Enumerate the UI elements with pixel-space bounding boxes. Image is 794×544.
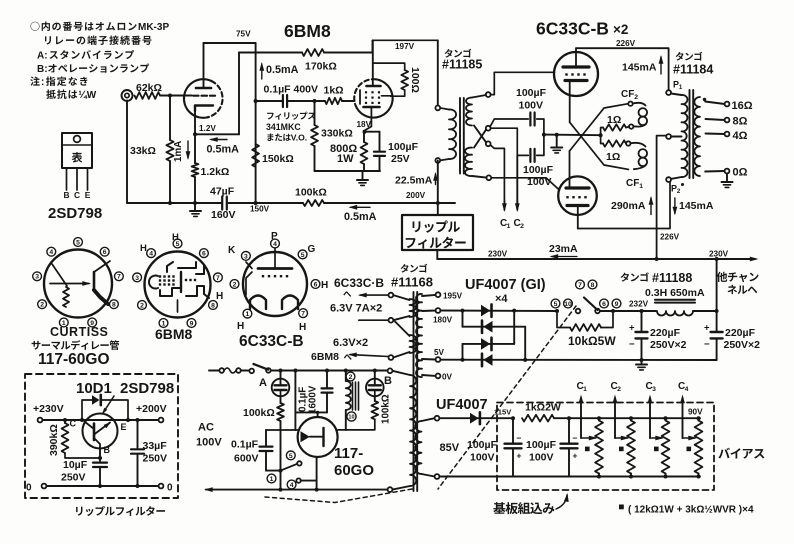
wire cathode-feedback [195,133,239,135]
resistor 100ohm screen [373,63,405,70]
svg-text:4Ω: 4Ω [733,130,748,142]
S2 pin 2 [138,301,147,310]
S1 pin 9 [88,318,97,327]
node cap1 [640,309,644,313]
tube V4 6C33C lower [558,176,597,215]
bridge left vert 1-2 [462,311,464,327]
tube V3 6C33C upper [554,52,598,96]
wire rail into ripple box [437,203,439,215]
V2 plate lead [372,40,374,86]
bias fixed dot 1 [585,447,590,452]
relay core [352,382,354,410]
arrow board [556,495,567,509]
bias wiper 4 [683,437,696,439]
package legs [66,168,68,190]
bridge right vert 2-4 [524,327,526,360]
svg-text:×4: ×4 [495,293,508,305]
wire lamp A chain down [280,421,282,471]
svg-text:6.3V×2: 6.3V×2 [333,337,368,349]
diode D4 [481,354,484,366]
bias wiper 3 [650,437,662,439]
V4 grid dots [566,196,568,198]
svg-text:22.5mA: 22.5mA [395,175,433,187]
wire cathode res top [194,134,196,163]
svg-text:K: K [228,245,236,256]
tap 16ohm [705,102,724,105]
svg-text:1Ω: 1Ω [606,151,620,163]
wire cap right [287,100,325,102]
AC bottom wire [206,489,388,491]
socket S3 6C33C-B [243,252,307,316]
svg-text:6: 6 [314,281,318,288]
svg-text:CF: CF [626,178,639,189]
1ohm bracket [601,128,603,144]
svg-text:0.3H 650mA: 0.3H 650mA [645,287,705,299]
svg-text:E: E [85,190,91,200]
svg-text:150V: 150V [250,205,270,214]
S1 pin 8 [110,300,119,309]
svg-text:0: 0 [26,483,32,494]
svg-text:6BM8: 6BM8 [311,351,339,363]
capacitor 10uF base [99,449,101,462]
wire 33k-rail [169,161,171,203]
svg-text:250V×2: 250V×2 [650,339,687,351]
svg-text:5: 5 [301,252,305,259]
svg-text:+: + [573,451,578,461]
switch SW1 [249,369,254,374]
node relay contact common [279,469,283,473]
capacitor 33uF out [136,418,140,422]
svg-text:9: 9 [615,301,619,308]
bias wiper 2 [615,437,628,439]
svg-text:B: B [64,190,70,200]
wire T1 primary bottom to rail [437,160,439,203]
other channel feed [716,259,718,331]
svg-text:180V: 180V [433,316,453,325]
base node [98,456,102,460]
svg-text:250V×2: 250V×2 [724,339,761,351]
label board assembly [493,502,505,514]
svg-text:0Ω: 0Ω [733,167,748,179]
node B+ rail [655,257,659,261]
svg-text:0.5mA: 0.5mA [266,64,299,76]
svg-text:60GO: 60GO [334,462,374,479]
bias fixed dot 3 [654,447,659,452]
svg-text:4: 4 [685,386,689,393]
svg-text:5: 5 [554,301,558,308]
svg-text:−: − [517,433,522,443]
svg-text:5V: 5V [434,348,445,357]
svg-text:A:: A: [37,51,48,62]
tap 195V [422,295,436,296]
bias bottom rail [439,476,700,478]
wire V4 to P2 [578,182,670,229]
heater wire 2 [359,319,389,321]
V3 grid dots [565,73,567,75]
svg-text:100V: 100V [196,437,222,449]
svg-text:3: 3 [35,274,39,281]
svg-text:330kΩ: 330kΩ [321,128,353,140]
relay pin numbers [576,280,585,289]
svg-text:B: B [104,445,111,455]
svg-text:1W: 1W [337,153,354,165]
V4 diagonal to CF2 [570,104,629,151]
svg-text:#11185: #11185 [442,58,482,72]
choke CF1 [626,141,630,145]
T1 sec terminal 2 [486,126,491,131]
cathode ground bus [315,170,381,172]
V1 grid dashes [194,95,199,97]
S1 pin 5 [74,238,83,247]
svg-text:6BM8: 6BM8 [284,21,331,41]
T1 core [459,98,461,174]
relay pin 1 [267,474,276,483]
svg-text:H: H [237,321,244,332]
V1 plate bar [196,87,211,90]
svg-text:0.1µF 400V: 0.1µF 400V [264,84,319,96]
svg-text:+230V: +230V [33,403,64,415]
wire box to 230V rail [436,250,438,259]
bridge right vert 1-3 [513,311,515,344]
svg-text:226V: 226V [616,39,636,48]
transformer T3 label [401,264,409,273]
transformer T1 #11185 label [445,49,453,58]
svg-text:E: E [121,422,127,432]
resistor 170k feedback [239,52,302,54]
svg-text:1.2kΩ: 1.2kΩ [201,166,230,178]
svg-text:1: 1 [679,84,683,91]
svg-text:8: 8 [211,302,215,309]
svg-text:100µF: 100µF [526,439,557,451]
svg-text:H: H [140,243,147,254]
input jack J1 [122,90,133,101]
svg-text:100µF: 100µF [516,87,547,99]
S2 pin 8 [209,301,218,310]
svg-text:100V: 100V [519,100,544,112]
svg-text:7: 7 [578,282,582,289]
V2 plate bar [367,85,381,88]
contact lever 5 [281,464,298,471]
diode D3 [481,338,490,350]
svg-text:H: H [299,322,306,333]
svg-text:0V: 0V [442,373,453,382]
S2 pin 1 [159,319,168,328]
svg-text:A: A [259,377,267,389]
philips text [267,113,274,120]
V1 plate lead [203,43,205,88]
node caps junction [542,133,546,137]
wire cap1600 to mid [295,411,327,413]
dashed pointer B [265,489,412,503]
S1 pin 2 [38,300,47,309]
svg-text:+200V: +200V [136,403,167,415]
svg-text:0.5mA: 0.5mA [207,144,240,156]
ripple filter dashed box [25,374,178,498]
diode D2 [481,321,484,333]
svg-text:4: 4 [149,251,153,258]
wire 1.2k-rail [194,177,196,203]
pointer to transistor [103,396,114,413]
node ground stub [555,133,559,137]
node mid vert top [293,369,297,373]
svg-text:−: − [629,339,635,350]
svg-text:¼W: ¼W [78,90,96,101]
bias wire from 85V [439,417,513,419]
V1 cathode bar [195,106,213,112]
svg-text:1.2V: 1.2V [199,124,216,133]
RY1 heater arrow [301,431,310,442]
T3 heater winding 1 [389,293,394,298]
svg-text:150kΩ: 150kΩ [262,153,294,165]
svg-text:230V: 230V [488,250,508,259]
svg-text:220µF: 220µF [725,327,756,339]
svg-text:CURTISS: CURTISS [50,325,108,339]
svg-text:2: 2 [233,281,237,288]
S2 pin 5 [173,239,182,248]
ground caps [551,147,562,149]
svg-text:100kΩ: 100kΩ [381,394,392,424]
svg-text:7: 7 [301,311,305,318]
svg-text:117-: 117- [334,445,363,462]
tap 180V [422,310,436,313]
wire t2 to lower cap [491,128,529,155]
svg-text:2: 2 [349,374,353,381]
svg-text:P: P [271,231,278,242]
svg-text:250V: 250V [143,453,168,465]
svg-text:1: 1 [507,223,511,230]
bias fixed dot 4 [687,447,692,452]
svg-text:#11188: #11188 [652,271,692,285]
node A [168,94,172,98]
svg-text:10µF: 10µF [63,459,88,471]
bias pot column 3 [662,421,670,474]
wire vert mid [294,371,296,431]
wire t4 to V4 grid [491,178,559,190]
V3 plate bar [563,65,589,68]
P1 terminal [666,90,671,95]
capacitor 100uF upper [529,113,531,126]
resistor 100k lamp B [371,401,378,419]
diode D5 [470,413,479,424]
svg-text:+: + [704,323,710,334]
bias pot column 2 [627,421,635,474]
label bias [718,448,730,459]
heater arrow 6C33C [360,294,389,296]
T1 sec lead 1 [472,95,486,98]
wire t2chain to C2 [516,155,518,209]
S1 pin 6 [100,247,109,256]
svg-text:290mA: 290mA [611,200,646,212]
svg-text:341MKC: 341MKC [266,122,301,132]
svg-text:MK-3P: MK-3P [138,22,169,33]
annotation 0.5mA rail [351,206,371,208]
wire t1 to V3 grid [491,72,555,94]
rail to transformer [324,202,455,204]
wire into transformer [437,40,439,105]
node 330k junction [313,99,317,103]
capacitor 100uF lower [529,149,531,162]
transformer T2 #11184 label [676,52,684,61]
T2 secondary coil [694,97,700,176]
svg-text:#11168: #11168 [391,275,433,290]
label ripple filter [76,507,82,516]
capacitor 100uF bias 1 [512,418,514,442]
svg-text:2: 2 [617,386,621,393]
T2 primary coil [671,94,682,96]
T3 heater winding 2 [410,335,416,353]
svg-text:0.1µF: 0.1µF [231,439,259,451]
svg-text:2SD798: 2SD798 [120,380,174,397]
capacitor 220uF first [641,311,643,331]
svg-text:0.5mA: 0.5mA [344,211,377,223]
svg-text:232V: 232V [629,300,649,309]
resistor 150k [252,144,259,167]
S1 internals [52,264,67,286]
node cap1600 top [325,369,329,373]
wire relay top stub [317,412,319,417]
svg-text:90V: 90V [688,408,703,417]
svg-text:220µF: 220µF [650,327,681,339]
node neg rail [640,358,644,362]
svg-text:10D1: 10D1 [76,380,112,397]
svg-text:170kΩ: 170kΩ [305,61,337,73]
ground speaker [726,173,728,181]
contact 4 [296,478,300,482]
midtap terminal [666,134,671,139]
T1 sec lead 4 [472,176,486,178]
capacitor 0.1uF 1600V [326,371,328,389]
wire input down [126,101,128,204]
bias fixed dot 2 [619,447,624,452]
svg-text:5: 5 [289,453,293,460]
node 150k rail [254,201,258,205]
svg-text:33µF: 33µF [143,440,168,452]
svg-text:6C33C·B: 6C33C·B [334,276,384,290]
svg-text:4: 4 [290,482,294,489]
bridge left vert 3-4 [462,344,464,360]
svg-text:+: + [629,323,635,334]
resistor 390k [63,418,67,422]
svg-text:0: 0 [167,483,173,494]
V3 cathode lead [569,81,571,123]
contact lever [584,298,598,311]
svg-text:UF4007: UF4007 [436,397,488,413]
label other channel [717,272,728,282]
wire caps to 1ohm bracket [544,134,601,137]
wire B+ drop [255,43,257,203]
wire plate to B+ [372,40,437,52]
tap 8ohm [706,119,725,120]
T3 primary AC winding [388,368,393,373]
node bracket [599,133,603,137]
tap 5V [422,358,436,361]
svg-text:100V: 100V [470,452,495,464]
note text: relay terminal legend [31,22,40,31]
svg-text:−: − [704,339,710,350]
svg-text:2: 2 [140,302,144,309]
bridge wire 5V row4 + negative rail [440,359,716,361]
svg-text:+: + [517,451,522,461]
relay pin 4 [287,480,296,489]
node 1.2k rail [193,201,197,205]
node cathode [193,132,197,136]
heater arrow 6BM8 [350,355,389,357]
wire node-33k [169,96,171,141]
svg-text:16Ω: 16Ω [732,100,753,112]
svg-text:7: 7 [117,274,121,281]
S1 pin 1 [59,318,68,327]
svg-text:10: 10 [348,415,354,421]
wire plate top [204,42,256,44]
svg-text:160V: 160V [211,209,236,221]
svg-text:6.3V 7A×2: 6.3V 7A×2 [330,303,382,315]
T1 sec terminal 4 [486,175,491,180]
wire to choke [613,310,656,312]
svg-text:6C33C-B: 6C33C-B [239,333,304,350]
relay base lead [316,457,318,490]
svg-text:6C33C-B: 6C33C-B [536,19,609,39]
svg-text:100kΩ: 100kΩ [295,187,327,199]
svg-text:H: H [172,232,179,243]
rail right segment [229,202,304,204]
node rail-T1 [436,201,440,205]
bridge row3 [463,343,515,345]
V3 plate lead [575,48,577,67]
wire upper cap right [537,119,544,135]
tap 4ohm [706,133,725,136]
socket S1 CURTISS thermal relay [44,250,112,318]
ground cathode [357,179,368,181]
S3 pin 7 [299,309,308,318]
svg-text:2: 2 [677,188,681,195]
bias board dashed box [497,403,714,491]
wire V3 plate to P1 [576,48,669,90]
svg-text:6: 6 [103,249,107,256]
node cathode V2 [363,130,367,134]
T1 sec cross lead b [474,129,486,147]
rail 230V [437,258,755,260]
T1 sec cross lead a [474,126,486,143]
svg-text:4: 4 [49,249,53,256]
wire t2 to upper cap [490,119,528,127]
svg-text:6: 6 [202,251,206,258]
S3 pin 3 [242,252,251,261]
wire B+ midtap [657,136,667,259]
svg-text:3: 3 [244,253,248,260]
S2 internals [149,276,158,289]
relay pin 5 [286,451,295,460]
wire choke out [693,310,717,312]
V4 top lead [569,151,571,188]
svg-text:200V: 200V [406,191,426,200]
resistor 1.2k [192,163,199,177]
svg-text:100Ω: 100Ω [409,67,421,93]
capacitor 220uF second [711,331,723,333]
svg-text:230V: 230V [709,250,729,259]
S2 pin 9 [187,319,196,328]
wire grid V1 [160,95,192,97]
svg-text:100kΩ: 100kΩ [243,407,275,419]
svg-text:2: 2 [634,94,638,101]
relay pin 10 [347,412,356,421]
S2 pin 4 [147,249,156,258]
V2 grid rail [359,90,361,104]
node plate junction [254,99,258,103]
tap 0V [422,374,436,377]
svg-text:2: 2 [520,223,524,230]
T3 85V winding [435,416,440,421]
svg-text::: : [41,77,44,88]
